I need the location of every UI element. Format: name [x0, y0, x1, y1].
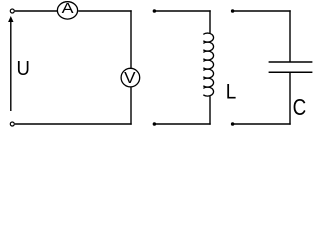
ammeter A [57, 1, 77, 19]
terminal (source, bottom-left) [10, 122, 14, 126]
svg-text:A: A [62, 1, 74, 17]
voltmeter V [121, 68, 140, 87]
node (inductor branch, bottom) [153, 122, 157, 126]
svg-text:U: U [17, 58, 30, 80]
svg-text:C: C [293, 94, 307, 120]
wire (right side, voltmeter down to bottom corner) [130, 87, 132, 124]
wire (capacitor bottom) [233, 123, 291, 125]
wire (down to capacitor) [289, 10, 291, 61]
terminal (source, top-left) [10, 9, 14, 13]
wire (right side, down to voltmeter) [130, 10, 132, 68]
voltage arrow U [8, 16, 13, 111]
wire (top, ammeter to right corner) [78, 10, 132, 12]
wire (capacitor down to bottom corner) [289, 73, 291, 125]
wire (bottom, corner to terminal) [15, 123, 132, 125]
wire (inductor bottom) [154, 123, 210, 125]
wire (capacitor top) [233, 10, 291, 12]
node (capacitor branch, top) [231, 9, 235, 13]
inductor L [203, 33, 213, 96]
node (inductor branch, top) [153, 9, 157, 13]
wire (inductor top) [154, 10, 210, 12]
svg-text:V: V [124, 70, 136, 87]
wire (top, terminal to ammeter) [15, 10, 57, 12]
wire (coil down to bottom corner) [209, 96, 211, 125]
svg-text:L: L [226, 81, 237, 104]
wire (down to coil) [209, 10, 211, 33]
capacitor C [269, 62, 313, 72]
node (capacitor branch, bottom) [231, 122, 235, 126]
